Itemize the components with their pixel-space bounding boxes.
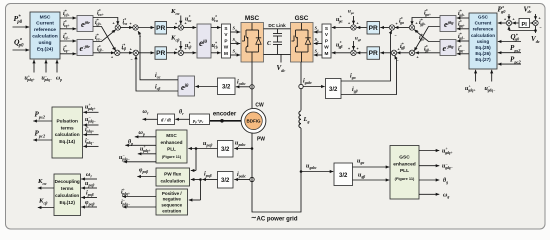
svg-text:PI: PI bbox=[522, 22, 528, 28]
svg-text:enhanced: enhanced bbox=[161, 140, 183, 145]
svg-text:DC Link: DC Link bbox=[268, 23, 286, 28]
svg-text:P: P bbox=[325, 38, 328, 43]
svg-text:calculation: calculation bbox=[160, 178, 185, 183]
wire u*_cb to SVPWM bbox=[211, 42, 221, 55]
tap i_pabc bbox=[234, 172, 254, 182]
wire u_gb to PLL bbox=[353, 173, 390, 182]
wire PRg beta out bbox=[357, 51, 367, 54]
svg-text:−: − bbox=[394, 34, 396, 38]
wire i_pab down to seq extraction bbox=[189, 180, 201, 202]
wire u-_gdq- out bbox=[419, 162, 454, 170]
block e^-j&#952;g negative bbox=[440, 40, 456, 56]
capacitor C dc link bbox=[267, 29, 282, 55]
svg-text:PR: PR bbox=[156, 50, 165, 57]
svg-text:+: + bbox=[356, 22, 358, 26]
block SVPWM MSC bbox=[222, 24, 231, 58]
wire theta_r bbox=[175, 110, 189, 121]
wire i*_ca bbox=[120, 18, 133, 29]
stub i+_pdq+ pulsation bbox=[83, 126, 98, 137]
wire i*_ga- crossing bbox=[413, 28, 440, 41]
sum junction ga combine bbox=[409, 22, 418, 35]
svg-text:3/2: 3/2 bbox=[222, 84, 231, 90]
block e^j&#952; MSC bbox=[197, 24, 211, 58]
igbt leg GSC bbox=[292, 23, 311, 62]
svg-text:+: + bbox=[504, 18, 506, 22]
stub K_cb bbox=[170, 35, 182, 50]
svg-text:AC power grid: AC power grid bbox=[256, 217, 297, 223]
sum junction beta combine bbox=[111, 47, 120, 60]
svg-text:reference: reference bbox=[473, 27, 494, 32]
stub u+_pdq+ into MSC ref bbox=[25, 60, 36, 82]
svg-text:MSC: MSC bbox=[245, 15, 260, 22]
svg-text:MSC: MSC bbox=[40, 14, 51, 20]
sum junction K beta bbox=[175, 47, 187, 56]
stub i-_pdq- pulsation bbox=[83, 137, 98, 148]
stub u-_gdq- into GSC ref bbox=[485, 70, 497, 93]
wire u*_gb to SVPWM bbox=[332, 41, 351, 54]
wire Q*_g0 bbox=[498, 32, 521, 43]
svg-text:terms: terms bbox=[61, 186, 74, 191]
svg-text:BDFIG: BDFIG bbox=[247, 118, 261, 123]
wire V_dc feedback bbox=[507, 26, 540, 44]
wire i*_gd+ bbox=[457, 10, 469, 20]
wire P*_g0 into block bbox=[498, 5, 507, 25]
wire i_pab bbox=[199, 172, 217, 182]
sum junction K alpha bbox=[175, 22, 187, 31]
svg-text:+: + bbox=[175, 47, 177, 51]
wire i*_cq+ bbox=[60, 20, 76, 30]
wire S_a GSC bbox=[314, 26, 322, 34]
wire K_cb out bbox=[38, 198, 54, 210]
stub omega_r decoupling bbox=[81, 172, 97, 181]
wire S_c MSC bbox=[231, 49, 241, 57]
wire i*_cq- bbox=[60, 45, 76, 55]
label CW bbox=[255, 103, 264, 109]
wire u_pab down to PW flux bbox=[191, 149, 196, 173]
svg-text:MSC: MSC bbox=[166, 133, 177, 138]
sum junction gb combine bbox=[409, 47, 418, 60]
svg-text:GSC: GSC bbox=[399, 155, 410, 161]
sum junction alpha error bbox=[129, 22, 141, 39]
wire omega_g out bbox=[419, 192, 449, 199]
wire u*_cb bbox=[183, 42, 196, 55]
wire u-_pdq- out bbox=[119, 154, 156, 164]
svg-text:negative: negative bbox=[163, 197, 182, 202]
wire i*_cb- bbox=[93, 45, 115, 54]
label PW bbox=[257, 137, 265, 143]
svg-text:PLL: PLL bbox=[167, 147, 176, 152]
svg-text:calculation: calculation bbox=[55, 132, 80, 138]
svg-text:calculation: calculation bbox=[55, 193, 79, 198]
stub V_dc measure bbox=[277, 54, 286, 73]
svg-text:terms: terms bbox=[61, 125, 74, 131]
sum junction alpha combine bbox=[111, 22, 120, 35]
svg-text:(Figure 11): (Figure 11) bbox=[162, 155, 182, 159]
wire PI to sum bbox=[512, 21, 518, 24]
block MSC current reference calculation bbox=[30, 12, 60, 59]
block e^j&#952; feedback bbox=[178, 76, 195, 96]
wire P_pc2 bbox=[498, 56, 522, 66]
svg-text:sequence: sequence bbox=[161, 203, 182, 208]
svg-text:+: + bbox=[512, 18, 514, 22]
input P*_p0 bbox=[13, 14, 30, 29]
label GSC bbox=[295, 15, 309, 22]
svg-text:3/2: 3/2 bbox=[221, 178, 230, 184]
svg-text:S: S bbox=[325, 26, 328, 31]
block PR GSC beta bbox=[367, 47, 380, 60]
block pulsation terms calculation bbox=[52, 107, 83, 158]
sum junction ug alpha bbox=[348, 22, 359, 31]
svg-text:using: using bbox=[477, 39, 489, 44]
block PR GSC alpha bbox=[367, 22, 380, 35]
stub i_pab decoupling bbox=[81, 191, 97, 200]
wire S_c GSC bbox=[314, 49, 322, 57]
sum junction Pg0 bbox=[504, 18, 515, 26]
svg-text:calculation: calculation bbox=[471, 33, 495, 38]
svg-text:W: W bbox=[224, 45, 229, 50]
wire i_cb feedback bbox=[134, 56, 178, 92]
svg-text:Current: Current bbox=[36, 21, 54, 27]
svg-text:3/2: 3/2 bbox=[339, 173, 348, 179]
svg-text:Eq.(14): Eq.(14) bbox=[59, 139, 75, 145]
svg-text:+: + bbox=[112, 22, 114, 26]
svg-text:d / dt: d / dt bbox=[161, 119, 172, 124]
wire u*_ga to SVPWM bbox=[332, 16, 351, 29]
stub K_ca bbox=[170, 8, 182, 24]
svg-text:enhanced: enhanced bbox=[393, 161, 415, 167]
svg-text:encoder: encoder bbox=[213, 112, 237, 118]
sum junction ug beta bbox=[348, 47, 359, 56]
wire omega_p out bbox=[135, 130, 156, 138]
svg-text:V*dc: V*dc bbox=[524, 5, 532, 14]
stub V*_dc bbox=[524, 5, 538, 20]
wire i*_ca- crossing bbox=[93, 28, 117, 41]
svg-text:+: + bbox=[415, 22, 417, 26]
svg-text:calculation: calculation bbox=[32, 34, 58, 40]
block 3/2 ipabc bbox=[218, 172, 234, 189]
stub u_pab decoupling bbox=[81, 181, 97, 190]
wire Vdc sum to PI bbox=[530, 21, 534, 24]
wire u_pab bbox=[188, 141, 217, 150]
wire i*_gq+ bbox=[457, 20, 469, 30]
svg-text:+: + bbox=[112, 47, 114, 51]
wire sumB2 to PRg2 bbox=[380, 51, 391, 54]
svg-text:+: + bbox=[111, 55, 113, 59]
svg-text:+: + bbox=[129, 22, 131, 26]
wire u_ga to PLL bbox=[353, 159, 390, 169]
block pole pairs bbox=[190, 114, 210, 125]
svg-text:+: + bbox=[348, 47, 350, 51]
wire encoder bbox=[210, 112, 241, 123]
block PW flux calculation bbox=[156, 168, 190, 186]
stub u+_gdq+ into GSC ref bbox=[465, 70, 477, 93]
svg-text:Decoupling: Decoupling bbox=[55, 179, 80, 184]
wire P_ps2 out bbox=[33, 111, 52, 123]
svg-text:+: + bbox=[111, 30, 113, 34]
wire PW to grid bus bbox=[252, 62, 301, 212]
wire u+_gdq+ out bbox=[419, 147, 453, 155]
svg-text:+: + bbox=[348, 22, 350, 26]
block PI bbox=[519, 19, 530, 28]
wire S_a MSC bbox=[231, 26, 241, 34]
svg-text:+: + bbox=[395, 22, 397, 26]
wire i*_cb bbox=[120, 44, 133, 55]
igbt leg MSC bbox=[242, 23, 261, 62]
block 3/2 igabc bbox=[326, 79, 342, 99]
svg-text:Current: Current bbox=[475, 21, 492, 26]
svg-text:−: − bbox=[130, 58, 132, 62]
stub omega_p into MSC ref bbox=[55, 60, 62, 82]
block GSC converter bbox=[291, 23, 314, 63]
wire i*_cb+ crossing bbox=[93, 19, 117, 52]
wire omega_r out bbox=[143, 109, 158, 121]
svg-text:3/2: 3/2 bbox=[221, 147, 230, 153]
sum junction ig alpha error bbox=[389, 22, 397, 38]
sum junction ig beta error bbox=[391, 47, 399, 63]
wire i+_pdq+ out bbox=[121, 188, 156, 198]
svg-text:PW: PW bbox=[257, 137, 265, 143]
wire i-_pdq- out bbox=[121, 199, 156, 209]
svg-text:+: + bbox=[416, 55, 418, 59]
inductor L_g bbox=[297, 111, 309, 129]
wire i*_gd- bbox=[457, 33, 469, 43]
block GSC current reference calculation bbox=[469, 13, 497, 69]
wire PR beta out bbox=[167, 51, 178, 54]
wire MSC to CW bbox=[251, 62, 253, 108]
block e^j&#952;r positive bbox=[77, 16, 93, 32]
svg-text:+: + bbox=[130, 47, 132, 51]
label AC power grid bbox=[251, 215, 298, 223]
wire u*_ca to SVPWM bbox=[211, 15, 221, 29]
svg-text:Pulsation: Pulsation bbox=[57, 119, 78, 125]
block positive negative sequence extraction bbox=[156, 189, 188, 215]
wire to PR beta bbox=[138, 51, 154, 54]
stub P*_g0 top bbox=[507, 14, 510, 20]
block e^-j&#952;r negative bbox=[77, 40, 93, 56]
wire i_ca feedback bbox=[137, 30, 178, 80]
label MSC bbox=[245, 15, 260, 22]
svg-text:Positive /: Positive / bbox=[162, 191, 183, 196]
sum junction Vdc bbox=[533, 17, 542, 30]
svg-text:PR: PR bbox=[156, 25, 165, 32]
wire to PR alpha bbox=[138, 26, 154, 29]
block 3/2 ugabc bbox=[334, 163, 353, 186]
block MSC enhanced PLL bbox=[156, 130, 187, 163]
wire u_gabc bbox=[300, 164, 334, 174]
wire theta_p out bbox=[125, 140, 156, 147]
wire i*_ga bbox=[395, 17, 410, 29]
svg-text:PR: PR bbox=[369, 25, 378, 32]
svg-text:Eq.(26): Eq.(26) bbox=[475, 51, 491, 56]
block 3/2 upabc bbox=[218, 141, 234, 158]
wire 3/2 to ejq bbox=[195, 85, 217, 88]
wire i*_cd- bbox=[60, 33, 76, 43]
wire i_ga feedback bbox=[341, 30, 393, 81]
wire i*_gb- bbox=[415, 45, 440, 54]
wire P_ps2 bbox=[498, 44, 521, 54]
label DC Link bbox=[268, 23, 286, 28]
wire i*_ca+ bbox=[93, 9, 119, 25]
wire u*_ca bbox=[183, 15, 196, 29]
svg-text:M: M bbox=[224, 51, 228, 56]
wire i_gb feedback bbox=[341, 55, 398, 95]
wire PRg alpha out bbox=[357, 26, 367, 29]
wire dc rail top bbox=[264, 28, 291, 30]
svg-text:M: M bbox=[325, 51, 329, 56]
wire i*_gb bbox=[397, 43, 410, 55]
wire PR alpha out bbox=[167, 26, 178, 29]
svg-text:PR: PR bbox=[369, 50, 378, 57]
block 3/2 cabc bbox=[218, 78, 236, 95]
svg-text:PLL: PLL bbox=[400, 168, 409, 174]
block e^j&#952;g positive bbox=[440, 16, 456, 32]
block SVPWM GSC bbox=[322, 24, 331, 58]
wire i*_ga+ bbox=[410, 9, 440, 25]
svg-text:Eq.(25): Eq.(25) bbox=[475, 45, 491, 50]
wire phi_pab out bbox=[137, 168, 156, 179]
svg-text:+: + bbox=[356, 47, 358, 51]
svg-text:Eq.(27): Eq.(27) bbox=[475, 57, 491, 62]
svg-text:+: + bbox=[175, 22, 177, 26]
svg-text:CW: CW bbox=[255, 103, 264, 109]
svg-text:(Figure 11): (Figure 11) bbox=[395, 176, 415, 181]
svg-text:+: + bbox=[538, 17, 540, 21]
wire sumB1 to PRg1 bbox=[380, 26, 389, 29]
svg-text:PW flux: PW flux bbox=[164, 172, 182, 177]
stub u_gb feedforward bbox=[352, 37, 362, 50]
stub u-_pdq- into MSC ref bbox=[42, 60, 53, 82]
svg-text:−: − bbox=[539, 26, 541, 30]
svg-text:S: S bbox=[224, 26, 227, 31]
input Q*_p0 bbox=[13, 38, 30, 52]
wire i_pab branch to PW flux bbox=[191, 178, 201, 181]
wire theta_g out bbox=[419, 178, 448, 185]
tap i_gabc bbox=[299, 79, 325, 89]
svg-text:ugβ: ugβ bbox=[355, 37, 361, 42]
svg-text:using: using bbox=[38, 40, 51, 46]
svg-text:reference: reference bbox=[34, 27, 56, 33]
sum junction beta error bbox=[130, 47, 139, 62]
wire K_ca out bbox=[37, 178, 54, 190]
block PR alpha bbox=[155, 22, 167, 35]
wire dc rail bottom bbox=[264, 53, 291, 55]
stub u-_pdq- pulsation bbox=[83, 116, 98, 127]
wire P_pc2 out bbox=[33, 130, 52, 142]
block GSC enhanced PLL bbox=[390, 146, 419, 200]
svg-text:Eq.(24): Eq.(24) bbox=[37, 46, 54, 52]
block PR beta bbox=[155, 47, 167, 60]
wire S_b MSC bbox=[231, 37, 241, 45]
wire u_pabc bbox=[234, 141, 253, 151]
svg-text:3/2: 3/2 bbox=[329, 87, 338, 93]
wire S_b GSC bbox=[314, 37, 322, 45]
svg-text:ugα: ugα bbox=[348, 10, 354, 15]
wire i*_gb+ crossing bbox=[413, 19, 440, 52]
svg-text:Eq.(12): Eq.(12) bbox=[60, 200, 76, 205]
svg-text:GSC: GSC bbox=[295, 15, 309, 22]
stub u+_pdq+ pulsation bbox=[83, 103, 98, 114]
block decoupling terms calculation bbox=[54, 174, 81, 216]
block d/dt bbox=[158, 114, 175, 125]
svg-text:extration: extration bbox=[162, 209, 181, 214]
wire i*_cd+ bbox=[60, 10, 76, 20]
svg-text:P: P bbox=[224, 38, 227, 43]
svg-text:W: W bbox=[324, 45, 329, 50]
wire u+_pdq+ out bbox=[138, 145, 156, 155]
stub phi_pab decoupling bbox=[81, 200, 97, 209]
svg-text:GSC: GSC bbox=[478, 15, 489, 20]
tap i_cabc bbox=[236, 80, 254, 90]
stub u_ga feedforward bbox=[348, 10, 355, 25]
block MSC converter bbox=[241, 23, 264, 63]
machine BDFIG bbox=[241, 108, 266, 133]
wire i*_gq- bbox=[457, 45, 469, 55]
